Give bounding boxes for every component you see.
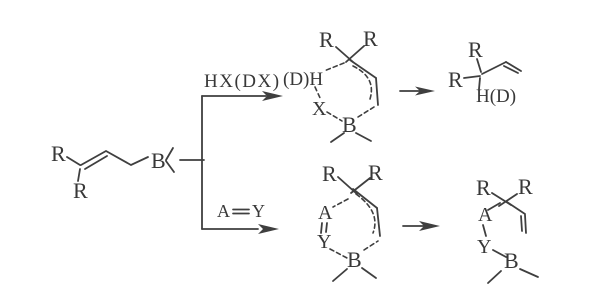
wire: connector B to branch bbox=[180, 159, 204, 161]
svg-text:Y: Y bbox=[477, 236, 491, 258]
wire: vertical branch line bbox=[201, 96, 203, 229]
svg-text:B: B bbox=[347, 247, 362, 272]
product1: bond C-CH vinyl bbox=[482, 62, 506, 74]
svg-text:B: B bbox=[504, 248, 519, 273]
product2: bond C-A bbox=[488, 203, 500, 210]
TS1 ring: bond Rright-Ct bbox=[346, 46, 364, 62]
TS1 ring: B substituent left bbox=[331, 133, 344, 142]
product2: bond Rleft-C crossing bbox=[492, 193, 511, 205]
arrow: bottom branch head bbox=[258, 224, 279, 234]
svg-text:R: R bbox=[319, 27, 334, 52]
product2: bond Y-B bbox=[493, 250, 506, 257]
TS2 ring: inner dashed partial double bond bbox=[356, 194, 375, 233]
arrow: TS2 to product shaft bbox=[403, 225, 424, 227]
label A=Y : double bond lines bbox=[233, 209, 249, 211]
svg-text:R: R bbox=[51, 141, 66, 166]
svg-text:R: R bbox=[368, 160, 383, 185]
product1: bond Rtop-C bbox=[477, 59, 481, 72]
TS2 ring: dashed bond B-C3 bbox=[364, 241, 378, 250]
TS2 ring: dashed bond Ct-A bbox=[333, 199, 348, 207]
svg-text:H(D): H(D) bbox=[476, 86, 516, 107]
svg-text:R: R bbox=[468, 37, 483, 62]
TS1 ring: B substituent right bbox=[356, 133, 371, 141]
TS1 ring: dashed bond X-B bbox=[327, 112, 342, 121]
svg-text:Y: Y bbox=[252, 201, 265, 221]
product1: vinyl double bond line1 bbox=[506, 62, 521, 71]
arrow: top branch head bbox=[262, 91, 283, 101]
TS1 ring: dashed bond H-X bbox=[315, 87, 321, 100]
svg-text:R: R bbox=[518, 174, 533, 199]
product2: B substituent right bbox=[520, 269, 538, 277]
svg-text:X: X bbox=[312, 98, 327, 120]
svg-text:Y: Y bbox=[317, 231, 331, 253]
TS1 ring: solid bond C2-C3 bbox=[376, 78, 378, 105]
product2: B substituent left bbox=[488, 271, 501, 283]
TS2 ring: A=Y double bond line2 bbox=[326, 223, 327, 232]
TS2 ring: B substituent right bbox=[362, 268, 376, 278]
svg-text:B: B bbox=[151, 148, 166, 173]
product2: vinyl double bond line2 bbox=[521, 216, 522, 231]
svg-text:A: A bbox=[478, 204, 493, 226]
product2: bond C-CH vinyl bbox=[507, 202, 525, 214]
svg-text:R: R bbox=[448, 67, 463, 92]
svg-text:R: R bbox=[73, 178, 88, 203]
svg-text:R: R bbox=[322, 161, 337, 186]
reactant: chain C1-C2-C3-B bbox=[81, 151, 148, 165]
reactant: bond C1-R2 bbox=[78, 169, 80, 181]
product2: bond Rright-C crossing bbox=[499, 194, 517, 206]
reactant: B fork upper line bbox=[166, 148, 173, 160]
TS2 ring: dashed bond Y-B bbox=[330, 249, 347, 258]
TS2 ring: B substituent left bbox=[333, 269, 347, 281]
arrow: TS1 to product head bbox=[415, 87, 435, 96]
TS1 ring: dashed bond Ct-H bbox=[324, 63, 344, 71]
arrow: top branch shaft bbox=[202, 95, 266, 97]
svg-text:A: A bbox=[217, 201, 230, 221]
TS2 ring: solid bond Ct-C2 bbox=[353, 189, 377, 208]
TS1 ring: inner dashed partial double bond bbox=[353, 66, 371, 99]
svg-text:R: R bbox=[363, 26, 378, 51]
TS2 ring: bond Rright-Ct bbox=[351, 178, 370, 193]
reactant: bond R1-C1 bbox=[67, 157, 80, 165]
svg-text:R: R bbox=[476, 175, 491, 200]
svg-text:A: A bbox=[318, 202, 333, 224]
TS1 ring: bond Rleft-Ct bbox=[336, 47, 353, 62]
product2: bond A-Y bbox=[483, 225, 486, 236]
reactant: double bond C1=C2 second line bbox=[85, 156, 107, 169]
svg-text:(D)H: (D)H bbox=[283, 69, 323, 90]
arrow: TS1 to product shaft bbox=[400, 90, 420, 92]
arrow: TS2 to product head bbox=[419, 221, 440, 231]
TS2 ring: bond Rleft-Ct bbox=[338, 177, 357, 194]
product1: bond C-H bbox=[479, 78, 480, 89]
arrow: bottom branch shaft bbox=[202, 228, 258, 230]
product2: vinyl double bond line1 bbox=[525, 215, 526, 233]
product1: vinyl double bond line2 bbox=[504, 66, 518, 73]
TS2 ring: solid bond C2-C3 bbox=[377, 208, 380, 236]
TS2 ring: A=Y double bond line1 bbox=[321, 223, 322, 233]
product1: bond Rleft-C bbox=[464, 76, 480, 78]
svg-text:HX(DX): HX(DX) bbox=[204, 71, 281, 92]
TS1 ring: solid bond Ct-C2 bbox=[350, 60, 376, 78]
reactant: B fork lower line bbox=[166, 161, 174, 172]
TS1 ring: dashed bond B-C3 bbox=[358, 107, 374, 117]
